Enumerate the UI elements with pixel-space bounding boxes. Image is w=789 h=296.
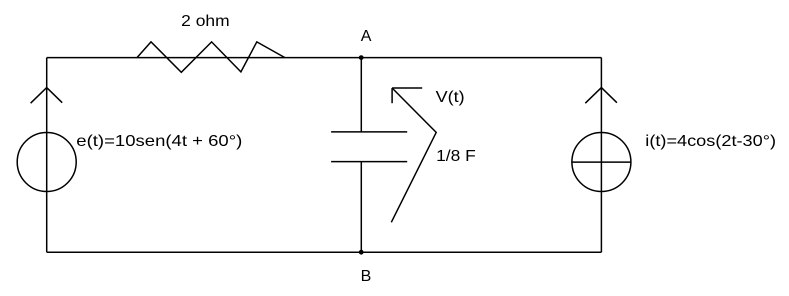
- svg-text:A: A: [361, 28, 372, 45]
- svg-text:B: B: [361, 268, 372, 285]
- svg-text:1/8 F: 1/8 F: [436, 148, 476, 165]
- svg-text:2 ohm: 2 ohm: [181, 13, 229, 30]
- svg-text:e(t)=10sen(4t + 60°): e(t)=10sen(4t + 60°): [76, 133, 242, 150]
- svg-text:i(t)=4cos(2t-30°): i(t)=4cos(2t-30°): [645, 133, 776, 150]
- svg-text:V(t): V(t): [436, 89, 465, 106]
